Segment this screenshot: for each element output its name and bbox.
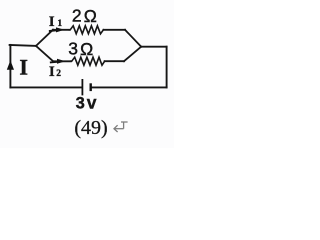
svg-text:(49): (49)	[74, 117, 107, 139]
value label 2 ohm	[72, 6, 97, 26]
node B: right merge junction, wire to right edge	[141, 46, 166, 48]
current arrow I (pointing up on left wire)	[7, 60, 14, 69]
wire: bottom left from battery	[10, 86, 80, 88]
value label 3 ohm	[68, 39, 93, 59]
wire: left vertical branch	[9, 45, 11, 88]
svg-text:v: v	[87, 93, 97, 113]
wire: top branch lead-out	[103, 29, 125, 31]
wire: middle branch lead-out	[105, 60, 124, 62]
svg-text:3: 3	[76, 95, 85, 113]
wire: middle branch lead-in	[53, 60, 71, 62]
svg-text:I: I	[49, 14, 55, 30]
wire: top branch lead-in	[53, 29, 70, 31]
current arrow I2 (pointing right on middle branch)	[51, 59, 66, 64]
svg-text:2: 2	[72, 6, 82, 26]
wire: top-left horizontal to split node	[10, 44, 37, 47]
wire: bottom right to battery	[92, 86, 167, 88]
value label 3v	[76, 93, 97, 113]
wire: middle-right diagonal to merge node	[124, 47, 141, 62]
svg-text:1: 1	[57, 19, 62, 29]
resistor R2 (3 ohm) zigzag	[71, 57, 105, 65]
svg-text:I: I	[49, 64, 55, 80]
battery B1: long plate (+)	[81, 80, 83, 95]
wire: diagonal down to middle branch	[36, 46, 53, 61]
node A: left split junction	[36, 30, 53, 62]
label I2	[49, 64, 61, 80]
resistor R1 (2 ohm) zigzag	[69, 26, 103, 34]
battery B1: short plate (-)	[89, 85, 91, 90]
svg-text:Ω: Ω	[84, 6, 97, 26]
current arrow I1 (pointing right on top branch)	[50, 27, 65, 32]
svg-text:I: I	[19, 54, 28, 79]
svg-text:3: 3	[68, 39, 78, 59]
wire: diagonal up to top branch	[36, 30, 53, 46]
wire: top-right diagonal to merge node	[125, 30, 141, 47]
svg-text:2: 2	[56, 69, 61, 79]
svg-text:Ω: Ω	[80, 39, 93, 59]
wire: right vertical	[166, 47, 168, 88]
pilcrow: line-break return mark	[114, 122, 128, 132]
label I1	[49, 14, 63, 30]
